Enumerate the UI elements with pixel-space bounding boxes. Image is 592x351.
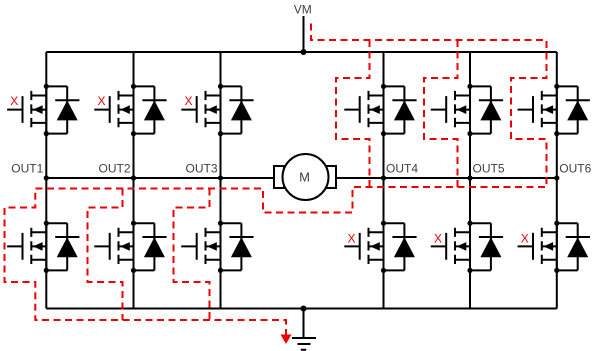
node OUT3 junction dot [218, 175, 223, 180]
node OUT2 junction dot [131, 175, 136, 180]
svg-text:OUT1: OUT1 [11, 162, 43, 176]
current path highlight: branch around OUT4 high-side [336, 40, 370, 187]
wire top supply rail [46, 51, 557, 53]
node OUT1 junction dot [44, 175, 49, 180]
transistor OUT2 low-side [94, 221, 166, 273]
wire OUT4-OUT6 output rail [336, 177, 557, 179]
transistor OUT6 high-side [518, 84, 590, 136]
wire half-bridge 3 column [220, 52, 222, 309]
transistor OUT6 low-side [518, 221, 590, 273]
transistor OUT4 high-side [344, 84, 416, 136]
current path highlight: branch around OUT2 low-side [88, 189, 123, 321]
wire half-bridge 6 column [556, 52, 558, 309]
motor M body [283, 154, 329, 200]
transistor OUT1 high-side [7, 84, 79, 136]
junction ground / bottom rail [301, 306, 307, 312]
svg-text:X: X [348, 232, 356, 246]
svg-text:OUT2: OUT2 [98, 162, 130, 176]
wire bottom ground rail [46, 308, 557, 310]
wire half-bridge 4 column [383, 52, 385, 309]
wire half-bridge 2 column [133, 52, 135, 309]
svg-text:X: X [10, 94, 18, 108]
svg-text:X: X [434, 232, 442, 246]
svg-text:OUT4: OUT4 [386, 162, 418, 176]
transistor OUT2 high-side [94, 84, 166, 136]
wire VM supply lead [303, 16, 305, 52]
wire half-bridge 5 column [469, 52, 471, 309]
motor M terminal left [274, 166, 284, 188]
svg-text:X: X [98, 94, 106, 108]
node OUT5 junction dot [467, 175, 472, 180]
current path highlight: branch around OUT5 high-side [424, 40, 458, 187]
node OUT6 junction dot [554, 175, 559, 180]
current path highlight: arrow into ground [281, 335, 292, 345]
svg-text:M: M [299, 170, 310, 185]
junction VM / top rail [301, 49, 307, 55]
transistor OUT3 high-side [181, 84, 253, 136]
transistor OUT3 low-side [181, 221, 253, 273]
svg-text:X: X [521, 232, 529, 246]
wire half-bridge 1 column [45, 52, 47, 309]
svg-text:OUT5: OUT5 [473, 162, 505, 176]
motor M terminal right [326, 166, 336, 188]
svg-text:OUT3: OUT3 [185, 162, 217, 176]
node OUT4 junction dot [381, 175, 386, 180]
wire ground lead [303, 309, 305, 339]
wire OUT1-OUT3 output rail [46, 177, 274, 179]
svg-text:VM: VM [294, 3, 312, 17]
transistor OUT1 low-side [7, 221, 79, 273]
transistor OUT4 low-side [344, 221, 416, 273]
current path highlight: branch around OUT3 low-side [174, 189, 210, 321]
transistor OUT5 high-side [431, 84, 503, 136]
transistor OUT5 low-side [431, 221, 503, 273]
svg-text:X: X [185, 94, 193, 108]
ground symbol [292, 338, 316, 350]
svg-text:OUT6: OUT6 [559, 162, 591, 176]
